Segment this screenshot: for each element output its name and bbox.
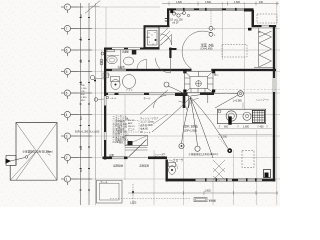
grid circle 7 [61, 133, 78, 142]
entrance door leaf [129, 140, 147, 158]
svg-text:AEP: AEP [128, 122, 133, 125]
svg-text:5: 5 [66, 70, 68, 74]
washroom fixtures: vanity ovals [107, 56, 134, 65]
exterior face line [101, 50, 103, 156]
left outside symbols [90, 75, 97, 101]
svg-text:CH=2,400: CH=2,400 [155, 157, 166, 159]
svg-text:クローク: クローク [173, 158, 184, 162]
dashed square LDK table [242, 151, 254, 168]
mid wall y93 [104, 93, 214, 96]
svg-text:トイレ: トイレ [126, 89, 134, 92]
svg-text:洋室 ,6帖: 洋室 ,6帖 [201, 42, 215, 47]
svg-text:1,650: 1,650 [243, 125, 250, 128]
svg-text:910: 910 [259, 1, 264, 4]
roof vent arrow [6, 159, 12, 164]
svg-text:1,820: 1,820 [234, 1, 241, 4]
faint dashed line kitchen top [215, 88, 280, 90]
grid circle 1 [61, 4, 78, 13]
kitchen circle 2 [243, 112, 251, 120]
kitchen dim row [220, 125, 268, 128]
roof hip diagonals [10, 123, 57, 181]
dashed balcony top-right [222, 14, 277, 57]
svg-text:1,100: 1,100 [81, 88, 87, 90]
left outer wall [104, 48, 106, 160]
right small text [214, 32, 262, 77]
svg-text:室外機: 室外機 [209, 199, 217, 203]
grid circle 5 [61, 90, 78, 99]
svg-text:16φ: 16φ [46, 150, 51, 154]
hall wall vertical [183, 95, 186, 108]
svg-text:手摺設置: 手摺設置 [139, 164, 150, 168]
stove hatched [252, 110, 264, 122]
dark dim text row mid-left [75, 131, 100, 134]
hall small arc [179, 101, 187, 110]
svg-text:450: 450 [260, 125, 265, 128]
svg-text:1,820: 1,820 [205, 1, 212, 4]
youshitsu big door arc [182, 31, 211, 69]
svg-text:600: 600 [224, 125, 229, 128]
winder stair [185, 71, 214, 92]
toilet left wall [166, 160, 168, 182]
kitchen door black [264, 170, 271, 178]
svg-text:(20F+1,582): (20F+1,582) [184, 130, 197, 133]
hall thin verticals [188, 95, 190, 108]
toilet room fixtures [111, 75, 136, 90]
svg-text:1: 1 [66, 177, 68, 181]
kitchen counter [217, 109, 265, 124]
top outer wall [167, 8, 254, 12]
closet zigzag upper right [254, 28, 273, 68]
grid circle 8 [61, 154, 78, 163]
grid circle 6 [61, 111, 78, 120]
left small text cluster [81, 85, 87, 102]
left dim texts [81, 13, 83, 172]
wall vent ticks [165, 18, 170, 20]
genkan steps [125, 147, 148, 149]
top wall window lines [176, 8, 244, 10]
left wall symbols [101, 52, 104, 55]
bath door arc [171, 34, 173, 45]
svg-text:UB: UB [147, 37, 151, 39]
bathroom walls [145, 27, 160, 48]
wall y26 horizontal (bath top) [144, 25, 170, 27]
svg-text:1,820: 1,820 [176, 1, 183, 4]
washroom top wall [104, 48, 177, 51]
svg-text:小屋裏換気口(有効120cm): 小屋裏換気口(有効120cm) [189, 152, 218, 156]
svg-text:(CH=2,400): (CH=2,400) [201, 49, 213, 51]
svg-text:玄関収納: 玄関収納 [113, 164, 124, 168]
svg-text:洗面所: 洗面所 [118, 65, 126, 69]
porch center dashed [132, 184, 134, 205]
window in mid wall [112, 69, 126, 72]
faint horizontal grid lines [70, 7, 280, 179]
svg-text:1,820: 1,820 [81, 97, 87, 99]
symbols below top wall [172, 12, 185, 18]
svg-text:ポーチ: ポーチ [100, 180, 108, 184]
hall door arc [153, 95, 166, 108]
svg-text:1,820: 1,820 [205, 190, 212, 193]
svg-text:4: 4 [66, 113, 68, 117]
left upper wall [167, 9, 169, 27]
grid circle 3 [61, 47, 78, 56]
stair walls [183, 70, 186, 73]
svg-text:⊙k 2F: ⊙k 2F [172, 22, 179, 25]
bottom dimension line [128, 191, 278, 195]
porch [97, 180, 123, 203]
svg-text:B1FL+1,350 GL+1,815: B1FL+1,350 GL+1,815 [75, 131, 100, 134]
top dimension line [162, 2, 279, 6]
dashed leader to black circle [218, 137, 228, 149]
legend text block [113, 114, 130, 144]
main mid wall y69-71 [104, 69, 276, 71]
left vertical dimension lines [78, 3, 92, 205]
svg-text:ホール: ホール [144, 96, 152, 100]
svg-text:PB 9.5: PB 9.5 [128, 126, 135, 128]
top-left short horizontal [90, 5, 100, 7]
second text block [140, 116, 159, 134]
WC toilet [169, 163, 176, 175]
top-left break diagonal [85, 1, 100, 14]
svg-text:7: 7 [66, 27, 68, 31]
grid circle 4 [61, 68, 78, 77]
bath hatch [158, 28, 171, 47]
svg-text:5: 5 [66, 91, 68, 95]
svg-text:2: 2 [66, 156, 68, 160]
switch circles [164, 26, 243, 151]
washroom door leaf+arc [169, 58, 171, 73]
svg-text:CF シート: CF シート [140, 131, 151, 134]
svg-text:⊸3 ⊸L: ⊸3 ⊸L [110, 98, 117, 100]
svg-text:1,820: 1,820 [130, 202, 137, 205]
svg-text:LDK 16帖: LDK 16帖 [183, 124, 198, 129]
entrance bottom wall [103, 157, 168, 160]
genkan shoe closet [125, 136, 148, 146]
grid circle 2 [61, 25, 78, 34]
toilet room boxes [103, 73, 109, 78]
roof plan outline [10, 123, 57, 181]
svg-text:3: 3 [66, 134, 68, 138]
top-right step walls [252, 10, 255, 27]
washroom small box row [107, 50, 115, 52]
right outer wall [273, 26, 275, 182]
wiring curves [140, 86, 238, 158]
svg-text:玄関: 玄関 [109, 153, 114, 157]
corner post [248, 28, 252, 31]
svg-text:7: 7 [66, 5, 68, 9]
bathroom left wall thick [144, 26, 146, 49]
kitchen sink [226, 111, 236, 121]
washroom right wall [169, 48, 171, 59]
deck hatch bottom-center [213, 160, 225, 181]
washroom partition lines [120, 50, 122, 69]
below-wall tiny symbols [106, 96, 109, 99]
roof vent box [6, 155, 16, 165]
svg-text:L=2,585: L=2,585 [233, 100, 242, 103]
AC unit [194, 198, 207, 202]
switch pair dashes up [210, 11, 212, 27]
svg-text:6: 6 [66, 48, 68, 52]
grid circle 9 [61, 176, 78, 185]
bath door swing [137, 60, 147, 70]
svg-text:CF 12: CF 12 [128, 120, 135, 122]
faint vertical grid lines [106, 2, 277, 205]
bottom outer wall [166, 178, 276, 181]
